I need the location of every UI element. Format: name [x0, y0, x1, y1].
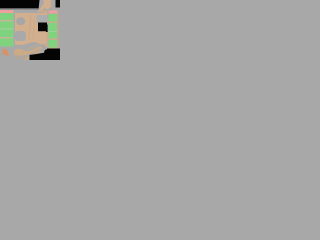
gray blob 1 in tan: [16, 17, 25, 25]
top tan sliver: [50, 0, 51, 7]
gray blob 2 in tan: [15, 31, 26, 41]
right gap 2 faint: [49, 31, 58, 32]
left gap 1: [0, 20, 14, 22]
left gap 2 faint: [0, 29, 14, 30]
central tan mass: [15, 13, 48, 45]
top tan blob: [44, 0, 51, 9]
top right black corner: [56, 0, 61, 8]
bottom gray wedge cutting tan mass: [15, 42, 48, 48]
left green column: [0, 13, 14, 47]
transition rows under top black: [0, 7, 39, 10]
lower diagonal tan stripe: [25, 50, 42, 60]
tan patch joining wedge to mass: [42, 11, 48, 14]
faint darker tan streaks in tan mass: [29, 15, 31, 40]
orange curl blob bottom left: [2, 49, 9, 56]
top tan diagonal wedge: [38, 3, 47, 12]
right gap 1: [49, 22, 58, 24]
right edge faint tan strip: [57, 14, 59, 48]
left pink bar: [0, 10, 14, 13]
mottled tan bits bottom left: [15, 56, 21, 59]
left gap 3: [0, 37, 14, 39]
right gap 3: [49, 39, 58, 41]
faint upper diagonal tan stripe: [26, 43, 40, 50]
tan line under right green column: [47, 48, 57, 49]
gray background: [0, 0, 60, 60]
top black strip: [0, 0, 40, 8]
bottom right black region: [30, 49, 61, 61]
tan segment right column: [46, 32, 49, 39]
right green column: [49, 14, 58, 48]
middle black rect: [38, 23, 48, 33]
right pink bar: [49, 11, 58, 14]
wavy tan band bottom left: [14, 46, 42, 56]
gray block upper right of tan: [37, 15, 48, 23]
